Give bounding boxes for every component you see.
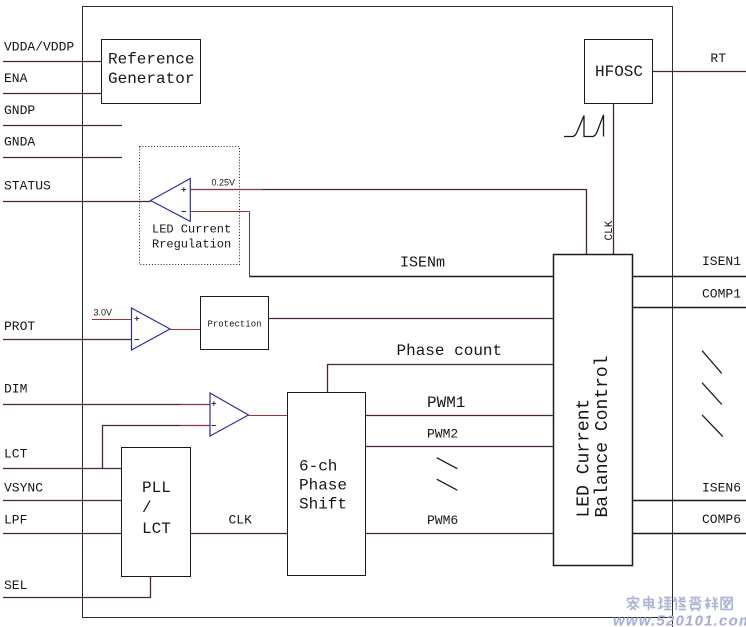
- op-amp U1 (LED current regulation comparator, points left): [151, 179, 191, 222]
- wire PWM6: [365, 533, 553, 535]
- svg-text:Phase count: Phase count: [397, 342, 503, 360]
- wire CLK from HFOSC down to Balance Control: [613, 103, 615, 254]
- wire minus input down to ISENm net: [249, 212, 251, 277]
- wire LCT branch to comparator U3 minus input: [103, 426, 211, 469]
- svg-text:Generator: Generator: [108, 70, 194, 88]
- wire VDDA/VDDP to Reference Generator: [3, 61, 101, 63]
- svg-text:Rregulation: Rregulation: [152, 238, 231, 252]
- block PLL/LCT: [122, 448, 191, 577]
- wire comparator U3 output to 6-ch Phase Shift: [249, 415, 288, 417]
- svg-text:VSYNC: VSYNC: [4, 481, 43, 496]
- block Protection: [201, 297, 269, 350]
- wire comparator U2 output to Protection block: [170, 329, 200, 331]
- wire DIM to comparator U3 plus input: [3, 404, 210, 406]
- svg-text:PWM1: PWM1: [427, 394, 465, 412]
- wire VSYNC to PLL/LCT: [3, 500, 122, 502]
- svg-text:/: /: [142, 499, 152, 517]
- ellipsis slashes right side: [702, 351, 723, 437]
- wire PWM2: [365, 446, 553, 448]
- svg-text:LCT: LCT: [4, 447, 28, 462]
- svg-text:ENA: ENA: [4, 71, 28, 86]
- wire COMP1: [633, 307, 746, 309]
- wire Phase count from 6-ch Phase Shift top to Balance Control: [328, 365, 554, 393]
- svg-text:ISENm: ISENm: [400, 255, 445, 272]
- svg-text:Shift: Shift: [299, 496, 347, 514]
- svg-text:PWM2: PWM2: [427, 427, 458, 442]
- svg-text:GNDP: GNDP: [4, 103, 35, 118]
- svg-text:LED Current: LED Current: [152, 223, 231, 237]
- svg-text:COMP6: COMP6: [702, 512, 741, 527]
- wire 3.0V reference to comparator U2 plus input: [92, 319, 132, 321]
- svg-text:HFOSC: HFOSC: [595, 63, 643, 81]
- wire LCT to PLL/LCT: [3, 468, 122, 470]
- wire op-amp U1 minus input: [190, 211, 249, 213]
- svg-text:LCT: LCT: [142, 520, 171, 538]
- svg-text:Protection: Protection: [207, 320, 261, 330]
- block 6-ch Phase Shift: [288, 393, 366, 576]
- comparator U2 (protection, points right): [132, 308, 171, 350]
- wire STATUS to op-amp U1 output: [3, 201, 151, 203]
- svg-text:6-ch: 6-ch: [299, 458, 337, 476]
- svg-text:PWM6: PWM6: [427, 513, 458, 528]
- dashed region LED Current Rregulation: [140, 147, 240, 265]
- svg-text:3.0V: 3.0V: [94, 308, 113, 318]
- ellipsis slashes between PWM2 and PWM6: [437, 458, 458, 491]
- wire ENA to Reference Generator: [3, 93, 101, 95]
- wire CLK from PLL/LCT to 6-ch Phase Shift: [191, 533, 288, 535]
- svg-text:VDDA/VDDP: VDDA/VDDP: [4, 40, 74, 55]
- svg-text:PROT: PROT: [4, 319, 35, 334]
- wire ISEN6: [633, 500, 746, 502]
- block HFOSC: [585, 40, 653, 104]
- svg-text:LPF: LPF: [4, 513, 27, 528]
- svg-text:DIM: DIM: [4, 382, 27, 397]
- wire RT from HFOSC: [653, 71, 746, 73]
- svg-text:RT: RT: [710, 51, 726, 66]
- svg-text:CLK: CLK: [604, 220, 616, 240]
- svg-text:0.25V: 0.25V: [212, 178, 236, 188]
- svg-text:SEL: SEL: [4, 578, 27, 593]
- svg-text:Reference: Reference: [108, 51, 194, 69]
- svg-text:www.520101.com: www.520101.com: [613, 613, 746, 627]
- wire GNDA stub: [3, 157, 122, 159]
- wire GNDP stub: [3, 125, 122, 127]
- wire LPF to PLL/LCT: [3, 533, 122, 535]
- svg-text:Balance Control: Balance Control: [593, 355, 613, 517]
- chip outline box: [83, 7, 673, 627]
- block Reference Generator: [102, 40, 201, 104]
- wire SEL to PLL/LCT bottom: [3, 576, 151, 598]
- svg-text:Phase: Phase: [299, 477, 347, 495]
- sawtooth waveform symbol: [564, 115, 604, 137]
- wire COMP6: [633, 533, 746, 535]
- wire PWM1: [365, 415, 553, 417]
- wire PROT to comparator U2 minus input: [3, 339, 132, 341]
- svg-text:ISEN1: ISEN1: [702, 254, 741, 269]
- watermark CJK glyphs 家电维修资料网: [628, 597, 733, 611]
- wire Protection output to LED Current Balance Control: [268, 318, 554, 320]
- svg-text:STATUS: STATUS: [4, 179, 51, 194]
- svg-text:CLK: CLK: [229, 513, 253, 528]
- comparator U3 (dim comparator, points right): [210, 393, 249, 436]
- svg-text:ISEN6: ISEN6: [702, 481, 741, 496]
- svg-text:GNDA: GNDA: [4, 135, 35, 150]
- wire op-amp U1 plus input (0.25V reference): [190, 190, 586, 255]
- block LED Current Balance Control: [554, 255, 633, 566]
- svg-text:COMP1: COMP1: [702, 287, 741, 302]
- svg-text:LED Current: LED Current: [575, 399, 595, 518]
- wire ISEN1: [633, 276, 746, 278]
- wire ISENm to LED Current Balance Control: [250, 276, 554, 278]
- svg-text:PLL: PLL: [142, 479, 171, 497]
